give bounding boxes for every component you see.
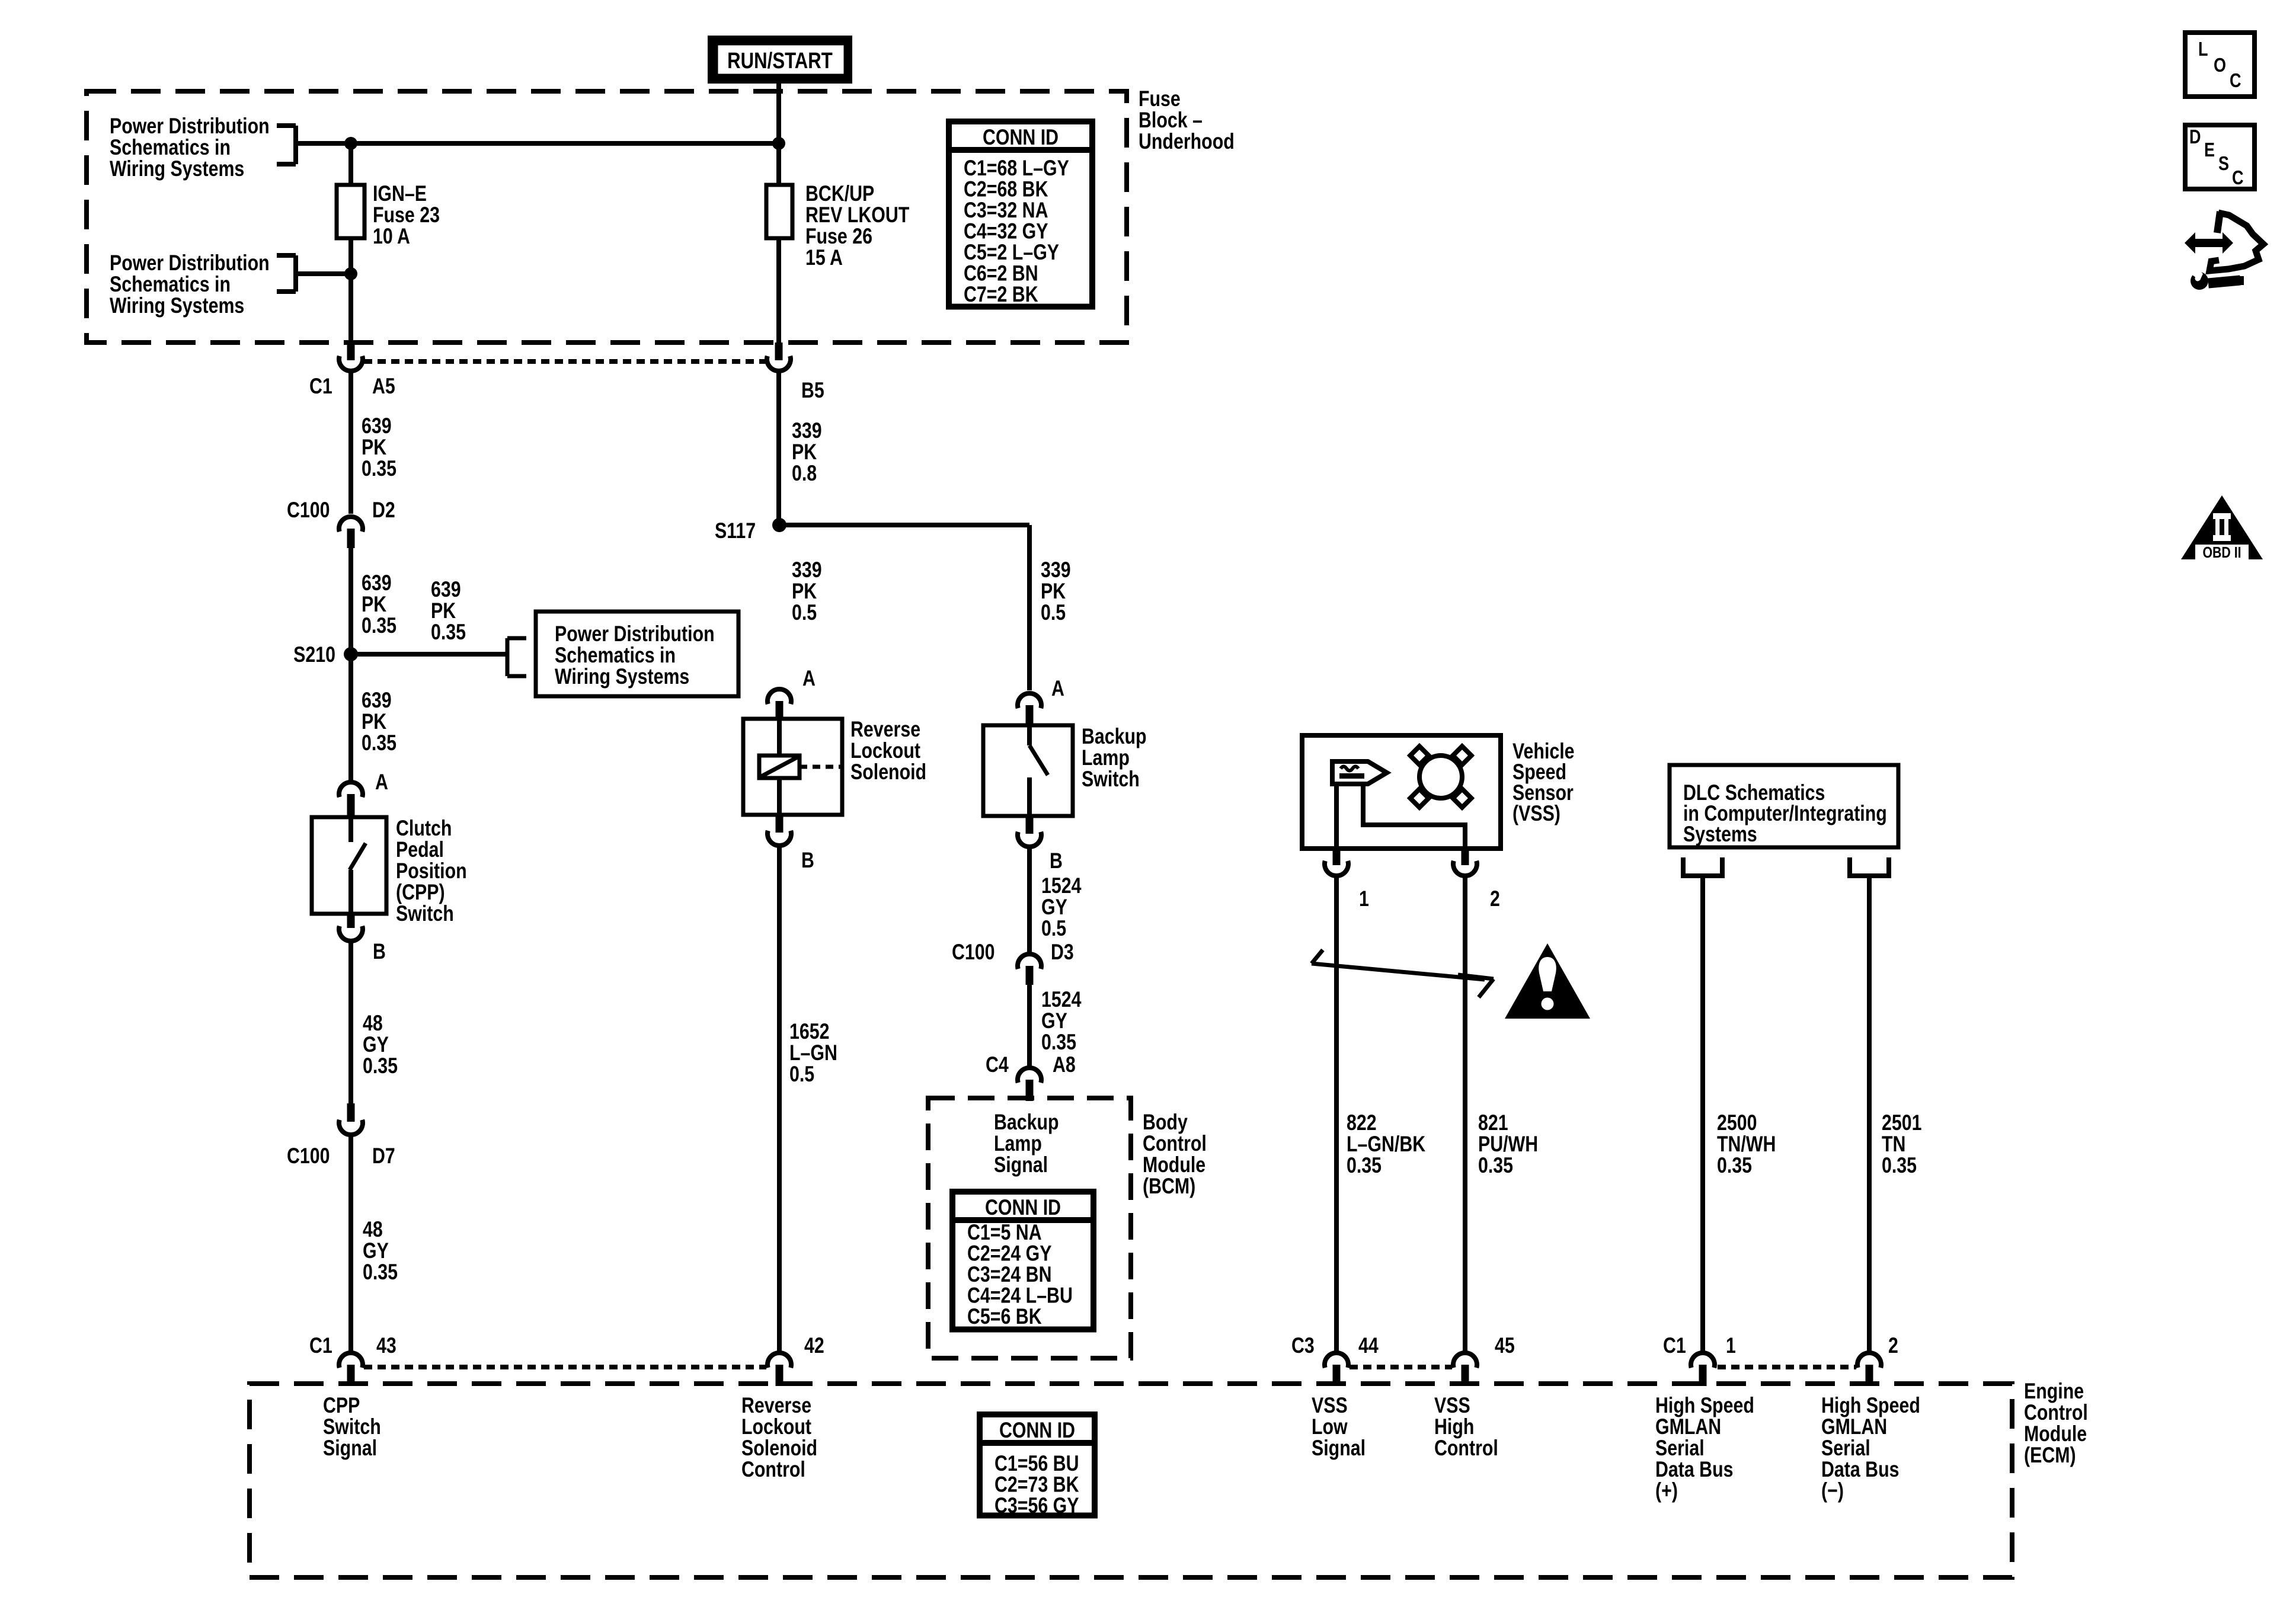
svg-text:Wiring Systems: Wiring Systems bbox=[110, 293, 244, 318]
svg-text:O: O bbox=[2214, 55, 2226, 76]
svg-text:S117: S117 bbox=[715, 518, 756, 543]
svg-text:A: A bbox=[375, 770, 388, 795]
svg-text:43: 43 bbox=[376, 1333, 396, 1358]
svg-text:0.35: 0.35 bbox=[1478, 1153, 1513, 1178]
svg-text:10 A: 10 A bbox=[373, 224, 410, 249]
svg-text:0.35: 0.35 bbox=[1882, 1153, 1917, 1178]
svg-text:Control: Control bbox=[741, 1457, 805, 1482]
svg-text:D2: D2 bbox=[372, 498, 395, 523]
svg-text:D7: D7 bbox=[372, 1144, 395, 1169]
svg-text:Signal: Signal bbox=[1312, 1436, 1366, 1461]
svg-text:C1: C1 bbox=[309, 1333, 332, 1358]
svg-text:1: 1 bbox=[1359, 886, 1369, 911]
svg-text:D3: D3 bbox=[1051, 940, 1074, 965]
svg-text:RUN/START: RUN/START bbox=[727, 49, 833, 73]
svg-text:C100: C100 bbox=[287, 498, 330, 523]
svg-text:A: A bbox=[1051, 676, 1064, 701]
svg-text:0.5: 0.5 bbox=[792, 600, 817, 625]
svg-text:0.8: 0.8 bbox=[792, 461, 817, 486]
svg-text:C7=2 BK: C7=2 BK bbox=[964, 282, 1038, 307]
svg-text:A5: A5 bbox=[372, 374, 395, 399]
svg-text:0.5: 0.5 bbox=[1041, 600, 1066, 625]
svg-text:2: 2 bbox=[1490, 886, 1500, 911]
svg-text:Wiring Systems: Wiring Systems bbox=[555, 664, 689, 689]
svg-text:C4: C4 bbox=[986, 1052, 1009, 1077]
svg-text:C3=56 GY: C3=56 GY bbox=[994, 1493, 1079, 1518]
svg-text:(−): (−) bbox=[1821, 1478, 1844, 1503]
svg-text:0.35: 0.35 bbox=[362, 731, 396, 756]
svg-text:Switch: Switch bbox=[396, 901, 454, 926]
svg-text:0.5: 0.5 bbox=[1041, 916, 1066, 941]
svg-text:0.35: 0.35 bbox=[1347, 1153, 1382, 1178]
svg-text:B5: B5 bbox=[801, 378, 824, 403]
svg-text:CONN ID: CONN ID bbox=[999, 1418, 1075, 1443]
svg-text:44: 44 bbox=[1358, 1333, 1379, 1358]
svg-text:D: D bbox=[2189, 127, 2201, 148]
svg-text:L: L bbox=[2198, 39, 2208, 60]
svg-text:0.35: 0.35 bbox=[363, 1260, 398, 1285]
svg-text:Control: Control bbox=[1434, 1436, 1498, 1461]
svg-text:Signal: Signal bbox=[323, 1436, 377, 1461]
svg-text:(BCM): (BCM) bbox=[1143, 1174, 1195, 1199]
svg-text:0.35: 0.35 bbox=[362, 613, 396, 638]
svg-text:Signal: Signal bbox=[994, 1153, 1048, 1177]
svg-text:45: 45 bbox=[1495, 1333, 1515, 1358]
svg-text:A8: A8 bbox=[1053, 1052, 1076, 1077]
svg-text:S210: S210 bbox=[293, 642, 335, 667]
svg-text:C100: C100 bbox=[287, 1144, 330, 1169]
svg-text:0.35: 0.35 bbox=[1041, 1030, 1076, 1055]
svg-text:B: B bbox=[1050, 849, 1063, 873]
svg-text:42: 42 bbox=[804, 1333, 824, 1358]
svg-text:0.35: 0.35 bbox=[1717, 1153, 1752, 1178]
svg-text:C5=6 BK: C5=6 BK bbox=[967, 1304, 1042, 1329]
svg-text:Systems: Systems bbox=[1683, 822, 1757, 847]
svg-text:E: E bbox=[2204, 140, 2215, 161]
svg-text:CONN ID: CONN ID bbox=[983, 125, 1059, 150]
svg-text:2: 2 bbox=[1888, 1333, 1898, 1358]
svg-text:OBD II: OBD II bbox=[2202, 544, 2241, 562]
svg-text:C: C bbox=[2232, 168, 2244, 189]
svg-text:0.35: 0.35 bbox=[431, 620, 466, 645]
svg-text:(VSS): (VSS) bbox=[1512, 801, 1560, 826]
svg-text:C: C bbox=[2230, 71, 2241, 92]
svg-text:B: B bbox=[801, 848, 814, 873]
svg-text:1: 1 bbox=[1726, 1333, 1736, 1358]
svg-text:A: A bbox=[802, 666, 816, 691]
svg-text:Solenoid: Solenoid bbox=[850, 760, 926, 785]
svg-text:(+): (+) bbox=[1655, 1478, 1678, 1503]
svg-text:0.35: 0.35 bbox=[362, 456, 396, 481]
svg-text:0.35: 0.35 bbox=[363, 1054, 398, 1078]
svg-text:C3: C3 bbox=[1291, 1333, 1315, 1358]
svg-text:C1: C1 bbox=[309, 374, 332, 399]
svg-text:Wiring Systems: Wiring Systems bbox=[110, 156, 244, 181]
svg-text:C1: C1 bbox=[1663, 1333, 1686, 1358]
svg-text:Switch: Switch bbox=[1082, 767, 1140, 792]
svg-text:15 A: 15 A bbox=[805, 245, 843, 270]
svg-text:0.5: 0.5 bbox=[789, 1062, 814, 1087]
svg-text:C100: C100 bbox=[952, 940, 995, 965]
svg-text:(ECM): (ECM) bbox=[2024, 1443, 2076, 1468]
svg-text:CONN ID: CONN ID bbox=[985, 1195, 1061, 1220]
svg-text:B: B bbox=[373, 939, 386, 964]
svg-text:S: S bbox=[2218, 153, 2229, 175]
svg-text:Underhood: Underhood bbox=[1139, 129, 1235, 154]
